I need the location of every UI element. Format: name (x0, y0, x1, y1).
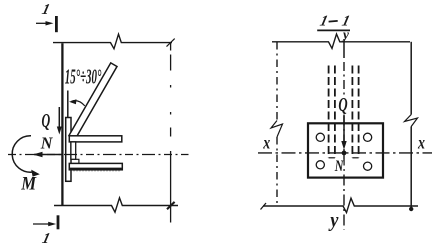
y axis of section lower part (dash-dot) (343, 115, 345, 230)
bottom edge line of wall with break (54, 198, 178, 212)
left wall edge (dashed) upper part (276, 42, 278, 120)
small rib under top bar (71, 142, 76, 159)
label x (left) (262, 134, 270, 153)
force N arrow (34, 154, 62, 156)
section mark 1 (bottom) label (40, 231, 51, 246)
inclined strut bar (69, 63, 117, 139)
svg-text:y: y (328, 210, 339, 232)
section mark 1 (bottom) arrow (33, 223, 50, 225)
dot at bottom of right edge (409, 207, 413, 211)
gusset plate edges (hidden, dashed) right pair (351, 66, 353, 158)
label M (20, 173, 37, 194)
svg-text:Q: Q (42, 109, 51, 132)
svg-text:1: 1 (40, 2, 51, 18)
svg-text:y: y (341, 26, 350, 41)
y axis of section (dash-dot) (343, 39, 345, 58)
thick tick at bottom-right corner (167, 202, 175, 209)
bolt hole bottom-right (364, 162, 372, 170)
centre dot (point of N) (342, 151, 347, 156)
svg-text:1: 1 (318, 13, 329, 29)
bolt hole bottom-left (316, 161, 324, 169)
left wall edge (dashed) lower part (276, 137, 278, 205)
angle reference vertical line (67, 91, 69, 134)
svg-text:15°÷30°: 15°÷30° (65, 65, 102, 89)
label y (top) (341, 26, 350, 41)
top edge line of wall (section) with break (272, 34, 410, 48)
label y (bottom) (328, 210, 339, 232)
svg-text:x: x (417, 134, 425, 153)
label N (left) (40, 133, 54, 152)
angle label 15°÷30° (65, 65, 102, 89)
break symbol on left edge (271, 121, 283, 138)
angle dimension arc with arrow (72, 101, 85, 106)
x axis of left view (dash-dot) (8, 154, 189, 156)
x axis of section (dash-dot) (258, 152, 432, 154)
wall far edge / axis line (dash-dot, solid below) (170, 43, 172, 223)
top anchor bar (69, 136, 122, 142)
force Q arrow (left view) (58, 107, 60, 127)
oblique tick at top-right corner (167, 39, 175, 47)
label Q (section) (338, 97, 350, 114)
title underline (317, 29, 350, 31)
top edge line of wall with break (53, 34, 172, 49)
bottom anchor bar (threaded) (69, 163, 122, 169)
moment M arc arrow (12, 136, 33, 172)
bolt hole top-right (364, 133, 372, 141)
svg-text:x: x (262, 134, 270, 153)
force Q arrow (section) (343, 116, 345, 147)
section mark 1 (top) cut tick (55, 16, 58, 32)
svg-text:N: N (40, 133, 54, 152)
end plate of bracket (vertical plate on wall) (66, 118, 71, 182)
section mark 1 (bottom) cut tick (57, 215, 60, 229)
section title 1-1 (318, 13, 329, 29)
wall face line (61, 43, 63, 205)
section mark 1 (top) label (40, 2, 51, 18)
section mark 1 (top) arrow (36, 22, 48, 24)
label Q (left) (42, 109, 51, 132)
label N (section) (333, 160, 343, 173)
svg-text:Q: Q (338, 93, 347, 116)
base plate (308, 123, 383, 177)
svg-text:M: M (20, 173, 37, 194)
right wall edge (solid) with break (410, 42, 412, 115)
thread serration under bottom bar (74, 170, 119, 171)
bottom edge line (section) with break (263, 198, 418, 212)
svg-text:N: N (334, 159, 344, 176)
bolt hole top-left (316, 133, 324, 141)
tick at left end of bottom line (261, 203, 267, 210)
label x (right) (417, 134, 425, 153)
svg-text:1: 1 (40, 231, 51, 246)
gusset plate edges (hidden, dashed) left pair (328, 66, 330, 158)
